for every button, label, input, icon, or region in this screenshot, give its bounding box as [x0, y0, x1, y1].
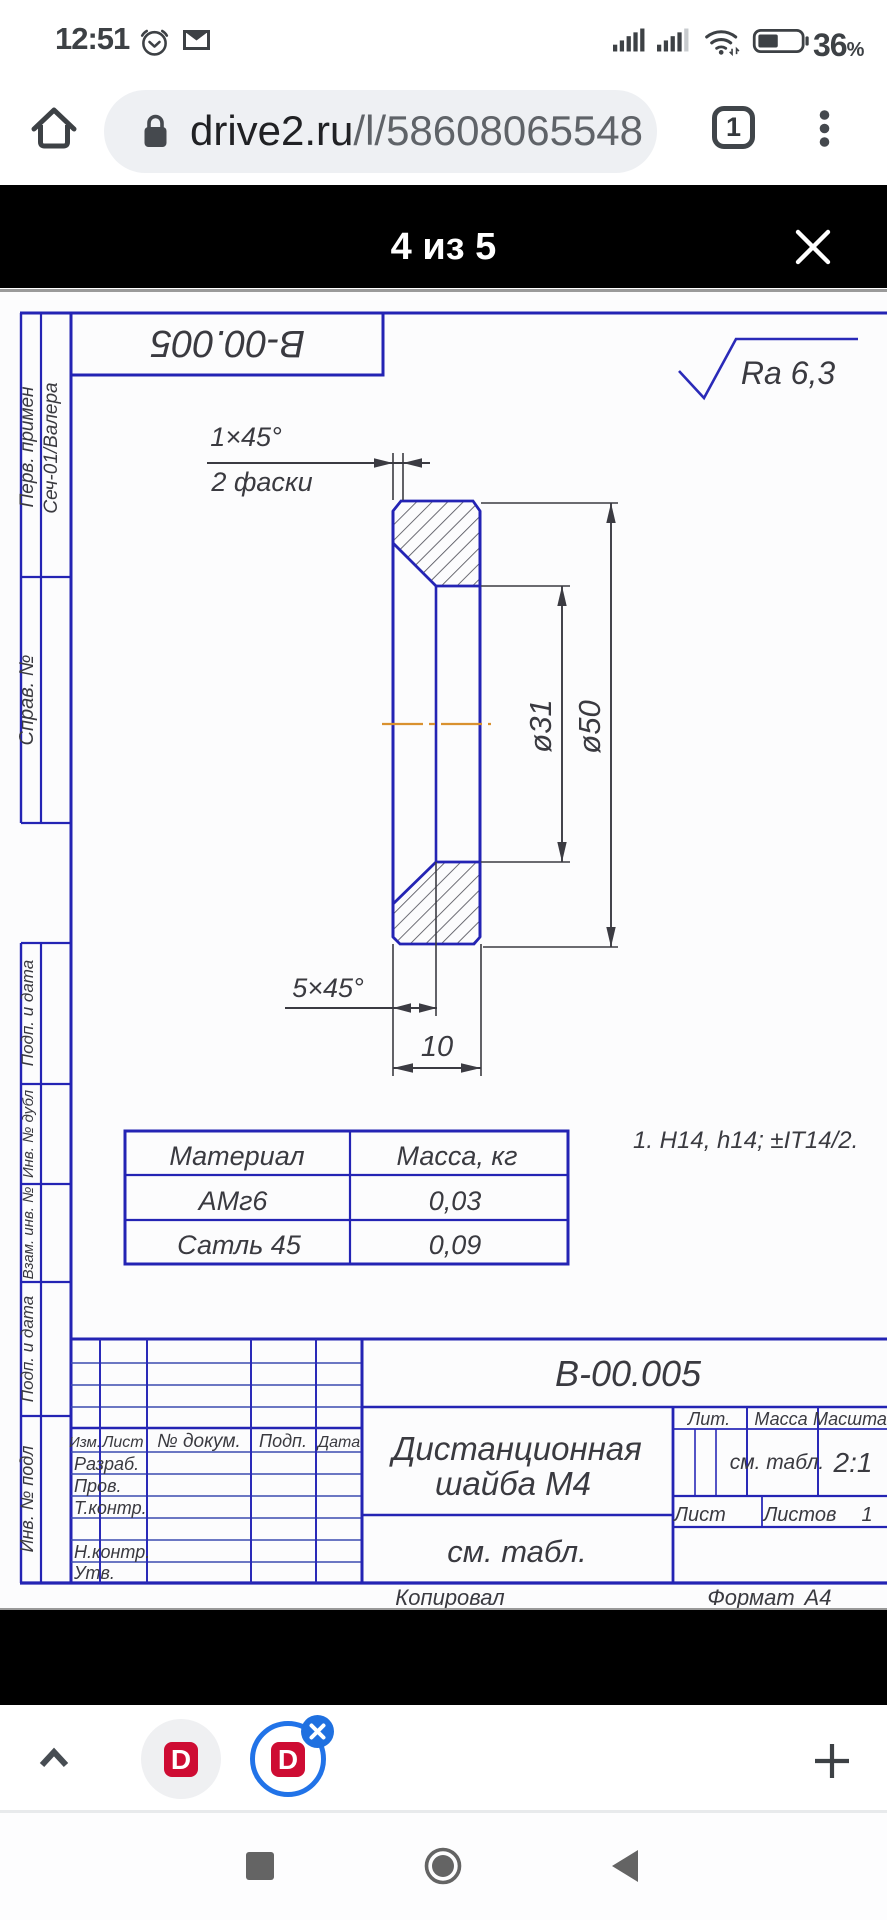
- washer bottom section (hatched): [393, 862, 480, 944]
- address pill: [104, 90, 657, 173]
- svg-text:Пров.: Пров.: [74, 1476, 121, 1496]
- D badge 1: [164, 1742, 198, 1777]
- separator line above bottom black bar: [0, 1608, 887, 1610]
- svg-text:Инв. № подл: Инв. № подл: [17, 1446, 37, 1553]
- svg-text:АМг6: АМг6: [197, 1186, 269, 1216]
- nav circle (home): [423, 1846, 463, 1886]
- chamfer edge circle line: [435, 586, 438, 862]
- close X: [795, 229, 831, 265]
- dim phi31 line: [561, 586, 563, 862]
- roughness symbol check: [679, 339, 858, 398]
- svg-text:шайба М4: шайба М4: [435, 1465, 591, 1502]
- dim phi31 arrows: [557, 586, 566, 606]
- svg-text:Копировал: Копировал: [395, 1585, 504, 1608]
- dim 5x45 extension line (chamfer edge): [435, 862, 437, 1016]
- frame bottom border: [20, 1581, 887, 1584]
- svg-text:Ra 6,3: Ra 6,3: [741, 355, 835, 391]
- right face silhouette line: [479, 511, 482, 937]
- svg-text:Изм.: Изм.: [69, 1434, 101, 1451]
- collapse chevron: [38, 1747, 70, 1769]
- title block header row line: [71, 1427, 362, 1429]
- left margin box separators: [21, 577, 71, 1416]
- svg-text:Формат: Формат: [707, 1585, 794, 1608]
- svg-text:Н.контр.: Н.контр.: [74, 1542, 150, 1562]
- svg-text:Подп. и дата: Подп. и дата: [18, 960, 37, 1066]
- svg-text:Масштаб: Масштаб: [813, 1409, 887, 1429]
- svg-text:Сатль 45: Сатль 45: [177, 1230, 302, 1260]
- center line (orange dash-dot): [382, 723, 491, 725]
- svg-text:см. табл.: см. табл.: [730, 1451, 825, 1474]
- dim 1x45 arrows: [374, 458, 393, 467]
- dim 10 extension lines: [393, 944, 481, 1076]
- svg-text:№ докум.: № докум.: [157, 1431, 241, 1452]
- svg-text:В-00.005: В-00.005: [555, 1353, 702, 1394]
- svg-text:Подп.: Подп.: [259, 1431, 307, 1451]
- mail icon: [183, 30, 210, 50]
- counter text 4 of 5: [0, 226, 887, 269]
- svg-text:Лист: Лист: [101, 1434, 143, 1451]
- svg-text:Листов: Листов: [762, 1504, 837, 1526]
- left margin inner vertical: [40, 313, 42, 1583]
- materials table row lines: [125, 1175, 568, 1220]
- svg-text:Материал: Материал: [169, 1141, 304, 1171]
- list row bottom line: [673, 1526, 887, 1528]
- tab circle 2 (active, blue ring): [250, 1721, 326, 1797]
- svg-text:Масса: Масса: [754, 1409, 807, 1429]
- tab circle 1 (gray): [141, 1719, 221, 1799]
- svg-text:Взам. инв. №: Взам. инв. №: [20, 1187, 37, 1280]
- left margin outer vertical: [20, 313, 22, 1583]
- signal bars 1: [613, 27, 647, 53]
- title block center divider: [361, 1339, 364, 1583]
- svg-text:10: 10: [421, 1031, 453, 1063]
- svg-text:Т.контр.: Т.контр.: [74, 1498, 147, 1518]
- alarm icon: [139, 26, 170, 57]
- svg-text:В-00.005: В-00.005: [150, 322, 305, 364]
- dim 10 arrows: [393, 1063, 413, 1072]
- svg-text:Справ. №: Справ. №: [16, 655, 38, 746]
- svg-text:Инв. № дубл: Инв. № дубл: [20, 1089, 37, 1178]
- svg-text:Дистанционная: Дистанционная: [388, 1430, 642, 1467]
- lit sub-cells: [695, 1429, 716, 1496]
- svg-text:Сеч-01/Валера: Сеч-01/Валера: [41, 382, 62, 513]
- doc number cell bottom: [362, 1406, 887, 1409]
- svg-text:Подп. и дата: Подп. и дата: [18, 1296, 37, 1402]
- svg-text:1: 1: [861, 1504, 872, 1526]
- frame left border: [70, 313, 73, 1583]
- svg-text:2 фаски: 2 фаски: [210, 467, 312, 497]
- close tab badge (blue X): [301, 1715, 334, 1748]
- svg-text:Масса, кг: Масса, кг: [397, 1141, 518, 1171]
- dim phi50 arrows: [606, 503, 615, 523]
- title block top border: [71, 1338, 887, 1341]
- signal bars 2: [657, 27, 691, 53]
- title block signature row lines: [71, 1452, 362, 1562]
- title block reserve row lines: [71, 1363, 362, 1407]
- lock icon: [143, 113, 168, 149]
- materials table column divider: [349, 1131, 351, 1264]
- svg-text:Дата: Дата: [316, 1434, 360, 1451]
- dim phi31 extension lines: [481, 586, 570, 862]
- dim 1x45 leader line: [207, 462, 430, 464]
- svg-text:1×45°: 1×45°: [210, 422, 282, 452]
- svg-text:Разраб.: Разраб.: [74, 1454, 139, 1474]
- dim 1x45 extension lines: [393, 453, 403, 500]
- nav triangle (back): [610, 1849, 640, 1883]
- right section divider: [672, 1407, 675, 1583]
- name cell divider: [362, 1514, 673, 1516]
- dim phi50 line: [610, 503, 612, 947]
- title block column lines: [100, 1339, 316, 1583]
- washer top section (hatched): [393, 501, 480, 586]
- frame top border: [20, 312, 887, 315]
- svg-text:0,09: 0,09: [429, 1230, 482, 1260]
- svg-text:ø31: ø31: [523, 699, 558, 752]
- separator line under black bar: [0, 289, 887, 292]
- tab counter: [712, 106, 755, 149]
- svg-text:1. Н14, h14; ±IT14/2.: 1. Н14, h14; ±IT14/2.: [633, 1127, 858, 1154]
- left face silhouette line: [392, 511, 395, 937]
- dim 10 line: [393, 1067, 481, 1069]
- nav square (recents): [246, 1852, 274, 1880]
- home icon: [30, 105, 78, 151]
- battery percent: [813, 27, 863, 64]
- materials table outer border: [125, 1131, 568, 1264]
- new tab plus: [813, 1742, 851, 1780]
- svg-text:5×45°: 5×45°: [292, 973, 364, 1003]
- svg-text:см. табл.: см. табл.: [447, 1534, 587, 1569]
- lit massa masshtab column lines: [747, 1407, 818, 1496]
- dim phi50 extension lines: [481, 503, 618, 947]
- top stamp box: [71, 313, 383, 375]
- svg-text:Лит.: Лит.: [687, 1409, 730, 1429]
- lit-massa-masshtab header underline: [673, 1428, 887, 1430]
- svg-text:Лист: Лист: [672, 1504, 726, 1526]
- wifi icon: [704, 26, 742, 57]
- menu dots: [818, 109, 831, 149]
- dim 5x45 arrows: [393, 1003, 411, 1012]
- list row divider: [761, 1496, 763, 1527]
- clock 12:51: [55, 21, 129, 57]
- url text: [190, 107, 643, 155]
- svg-text:0,03: 0,03: [429, 1186, 482, 1216]
- list row line: [673, 1495, 887, 1497]
- battery icon: [752, 29, 810, 53]
- dim 5x45 leader line: [285, 1007, 437, 1009]
- D badge 2: [271, 1742, 305, 1777]
- svg-text:2:1: 2:1: [833, 1447, 873, 1478]
- svg-text:ø50: ø50: [572, 700, 607, 753]
- svg-text:А4: А4: [803, 1585, 832, 1608]
- toolbar divider: [0, 1810, 887, 1813]
- svg-text:Утв.: Утв.: [73, 1563, 115, 1583]
- svg-text:Перв. примен: Перв. примен: [17, 386, 38, 508]
